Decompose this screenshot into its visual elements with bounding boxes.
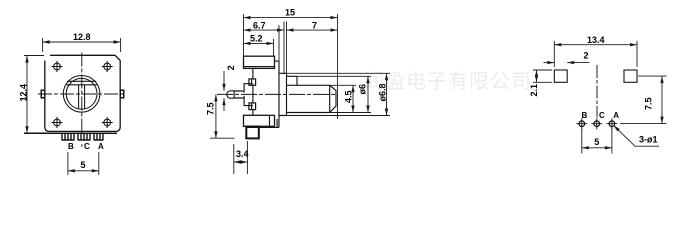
body bottom edge: [246, 126, 279, 128]
dim 2.1 extension lines: [533, 70, 552, 82]
bracket top block: [244, 56, 275, 68]
svg-text:2: 2: [226, 65, 236, 70]
svg-text:7.5: 7.5: [644, 97, 654, 110]
footprint right mounting slot: [624, 70, 637, 82]
pin hole B: [576, 118, 587, 129]
dim phi6.8 extension lines: [287, 73, 391, 115]
screw bottom-left: [52, 117, 63, 128]
dim 5 line (front): [68, 170, 99, 172]
svg-text:ø6.8: ø6.8: [378, 83, 388, 101]
dim 6.7 extension line: [279, 22, 287, 75]
tab connector lines: [234, 91, 244, 98]
dim 15 extension lines: [244, 14, 338, 119]
bracket plate lower segment: [252, 110, 254, 116]
svg-text:A: A: [613, 111, 619, 120]
footprint left mounting slot: [554, 70, 567, 82]
svg-text:7: 7: [312, 20, 317, 30]
bracket center-left round tab: [227, 91, 234, 98]
footprint vertical centerline: [596, 65, 598, 118]
mounting leg (side view): [246, 127, 258, 139]
bracket bottom block: [244, 115, 275, 126]
dim 2 (footprint) right segment: [567, 62, 589, 64]
dim 7.5 left line: [215, 94, 217, 138]
dim 2 upper segment: [223, 71, 225, 91]
svg-text:7.5: 7.5: [206, 102, 216, 115]
front vertical centerline: [81, 53, 83, 134]
bracket plate mid segment: [252, 85, 254, 103]
screw bottom-right: [102, 117, 113, 128]
dim 15 line: [244, 17, 338, 19]
svg-text:3.4: 3.4: [236, 149, 249, 159]
dim phi6 line: [367, 76, 369, 112]
shaft slot vertical lines: [79, 85, 85, 109]
svg-text:5: 5: [594, 137, 599, 147]
front right side tab: [120, 90, 124, 97]
dim 3.4 extension lines: [234, 141, 248, 174]
shaft tip chamfers and face: [330, 85, 336, 112]
svg-text:4.5: 4.5: [344, 90, 354, 103]
svg-text:B: B: [68, 142, 74, 151]
dim 2.1 line: [536, 70, 538, 82]
svg-text:15: 15: [285, 8, 295, 18]
body top edge: [275, 60, 280, 62]
dim 4.5 extension lines: [330, 85, 356, 112]
svg-text:5.2: 5.2: [250, 34, 263, 44]
dim 5.2 extension line: [273, 39, 275, 56]
svg-text:B: B: [582, 111, 588, 120]
shaft top edge: [287, 75, 298, 77]
inner circle of shaft boss: [66, 78, 97, 109]
dim 6.7 line: [244, 29, 285, 31]
dim 3.4 line: [234, 161, 248, 163]
front left side tab: [41, 90, 45, 97]
pin hole C: [591, 118, 602, 129]
screw top-right: [102, 61, 113, 72]
svg-text:13.4: 13.4: [587, 35, 605, 45]
dim 7 line: [287, 29, 338, 31]
bushing outline: [279, 73, 287, 115]
svg-text:12.8: 12.8: [73, 32, 91, 42]
dim 7.5 line (footprint): [661, 76, 663, 124]
shaft bottom edge: [287, 112, 330, 114]
svg-text:ø6: ø6: [358, 84, 368, 95]
bracket lower small tab: [249, 103, 256, 110]
front view body outline: [45, 55, 120, 131]
side view horizontal centerline: [217, 93, 338, 95]
front horizontal centerline: [38, 93, 125, 95]
svg-text:A: A: [98, 142, 104, 151]
svg-text:3-ø1: 3-ø1: [639, 135, 658, 145]
dim 12.8 line: [43, 41, 121, 43]
dim 12.4 extension lines: [24, 55, 44, 57]
dim 12.8 extension lines: [43, 38, 121, 52]
outer circle of shaft boss: [63, 76, 100, 113]
pins comb under front view: [62, 133, 103, 140]
svg-text:C: C: [84, 142, 90, 151]
dim 13.4 extension lines: [554, 41, 637, 67]
dim phi6.8 line: [386, 73, 388, 115]
svg-text:2: 2: [584, 51, 589, 61]
svg-text:12.4: 12.4: [19, 84, 29, 102]
bracket plate upper segment: [252, 68, 254, 79]
svg-text:2.1: 2.1: [529, 84, 539, 97]
svg-text:C: C: [599, 111, 605, 120]
dim 7.5 extension lines (footprint): [620, 76, 667, 124]
shaft flat line: [287, 84, 330, 86]
dim 5.2 line: [244, 42, 274, 44]
dim 5 line (footprint): [582, 147, 612, 149]
svg-text:6.7: 6.7: [253, 20, 266, 30]
shaft flat step: [296, 76, 298, 85]
bracket lower L step: [244, 96, 253, 106]
dim 4.5 line: [352, 85, 354, 112]
svg-text:5: 5: [81, 160, 86, 170]
dim 2 (footprint) left segment: [544, 62, 555, 64]
leader 3-phi1: [614, 125, 660, 146]
dim 7.5 left bottom extension: [210, 137, 235, 139]
bracket upper L step: [244, 84, 253, 93]
dim phi6 extension lines: [297, 76, 371, 112]
screw top-left: [52, 61, 63, 72]
shaft flat chord lines: [66, 81, 97, 85]
front centerline tick below pins: [81, 144, 83, 147]
front body bottom base line: [24, 132, 117, 134]
bracket upper small tab: [249, 79, 256, 85]
dim 13.4 line: [554, 44, 637, 46]
body back face: [278, 61, 280, 127]
dim 5 extension lines (footprint): [582, 128, 612, 154]
pin hole A: [606, 118, 617, 129]
dim 2 lower segment: [223, 98, 225, 111]
watermark company name: [364, 65, 532, 94]
dim 5 extension lines (front): [68, 152, 99, 175]
shaft chamfer circle line: [329, 85, 331, 112]
dim 12.4 line: [26, 56, 28, 134]
